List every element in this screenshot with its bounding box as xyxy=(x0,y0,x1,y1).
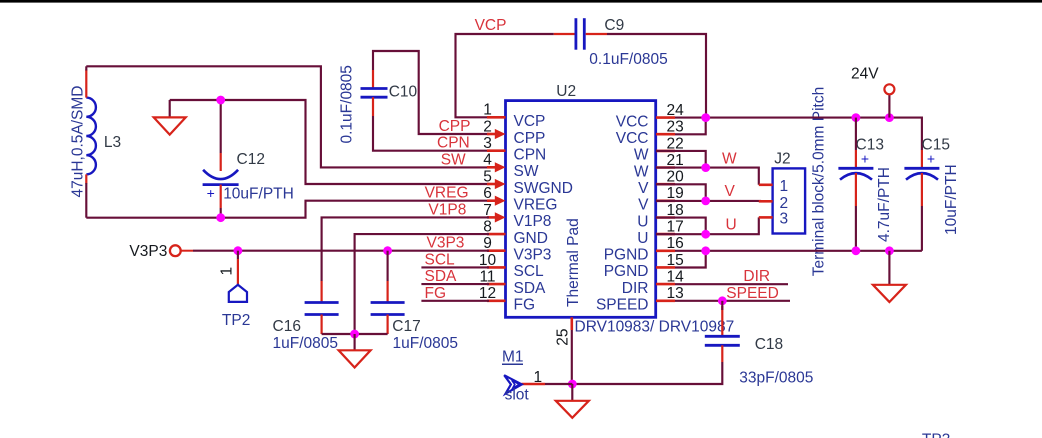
svg-text:DIR: DIR xyxy=(622,280,649,297)
svg-text:SCL: SCL xyxy=(514,263,545,280)
pin 21 (W) stub xyxy=(656,166,675,169)
pin 8 (GND) stub xyxy=(487,233,506,236)
wire net DIR : pin14 stub xyxy=(675,283,788,285)
svg-text:V3P3: V3P3 xyxy=(129,243,167,260)
wire net U : pin17 to J2 pin3 xyxy=(656,217,759,234)
svg-text:SWGND: SWGND xyxy=(514,180,573,197)
wire net VCC top : C9 right to VCC bus xyxy=(607,34,706,118)
svg-text:PGND: PGND xyxy=(604,247,649,264)
capacitor C10 xyxy=(361,70,388,116)
pin 14 (DIR) stub xyxy=(656,283,675,286)
svg-text:J2: J2 xyxy=(774,151,790,168)
svg-text:1: 1 xyxy=(780,178,789,195)
svg-text:V1P8: V1P8 xyxy=(428,201,466,218)
pin 13 (SPEED) stub xyxy=(656,299,675,302)
wire net V : pin19 to J2 pin2 xyxy=(656,184,760,201)
svg-text:slot: slot xyxy=(505,387,530,404)
svg-text:SPEED: SPEED xyxy=(596,297,649,314)
svg-text:VCP: VCP xyxy=(475,17,507,34)
wire C18 top lead xyxy=(721,301,723,310)
svg-text:V: V xyxy=(725,183,736,200)
connector J2 body xyxy=(773,168,806,233)
svg-text:11: 11 xyxy=(479,269,495,286)
svg-text:+: + xyxy=(207,185,215,201)
J2 pin 3 stub xyxy=(759,216,773,219)
junction PGND at ground xyxy=(885,246,894,255)
wire C12 top lead to SWGND node xyxy=(220,100,222,153)
wire net V3P3 : port to U2 pin9 xyxy=(180,250,193,252)
svg-text:V: V xyxy=(638,197,649,214)
svg-text:C13: C13 xyxy=(856,137,884,154)
svg-text:PGND: PGND xyxy=(604,263,649,280)
frame top border xyxy=(0,0,1042,3)
svg-text:10uF/PTH: 10uF/PTH xyxy=(943,164,960,235)
junction thermal pad / ground node xyxy=(568,380,577,389)
svg-text:C18: C18 xyxy=(755,336,783,353)
junction C12 top node xyxy=(216,96,225,105)
svg-text:SDA: SDA xyxy=(425,268,458,285)
wire net VREG : L3 bottom rail to U2 pin6 xyxy=(86,201,489,218)
svg-text:10uF/PTH: 10uF/PTH xyxy=(223,185,294,202)
pin 11 (SDA) stub xyxy=(487,283,506,286)
svg-text:C9: C9 xyxy=(604,17,624,34)
wire net GND : U2 pin8 to ground node xyxy=(355,234,489,334)
svg-text:10: 10 xyxy=(479,252,497,269)
svg-text:C16: C16 xyxy=(273,318,301,335)
mounting hole M1 (slot) xyxy=(504,375,545,393)
svg-text:Thermal Pad: Thermal Pad xyxy=(565,218,582,307)
svg-text:VREG: VREG xyxy=(425,185,469,202)
svg-text:C15: C15 xyxy=(922,137,950,154)
svg-text:0.1uF/0805: 0.1uF/0805 xyxy=(589,51,667,68)
svg-text:1: 1 xyxy=(219,267,236,276)
svg-text:GND: GND xyxy=(514,230,548,247)
svg-text:VCP: VCP xyxy=(514,113,546,130)
wire net VCC : pin24 bus to 24V and C13/C15 xyxy=(675,118,922,150)
pin 5 (SWGND) stub xyxy=(487,179,506,189)
svg-text:1uF/0805: 1uF/0805 xyxy=(393,335,459,352)
svg-text:25: 25 xyxy=(555,328,572,345)
pin 9 (V3P3) stub xyxy=(487,249,506,252)
capacitor C15 xyxy=(904,150,939,206)
ground symbol near C12 xyxy=(154,100,186,135)
svg-text:SPEED: SPEED xyxy=(726,285,779,302)
svg-text:TP3: TP3 xyxy=(922,432,950,438)
svg-text:15: 15 xyxy=(667,252,684,269)
junction SPEED at C18 xyxy=(718,296,727,305)
pin 7 (V1P8) stub xyxy=(487,212,506,222)
svg-text:21: 21 xyxy=(667,152,684,169)
svg-text:19: 19 xyxy=(667,185,684,202)
pin 24 (VCC) stub xyxy=(656,116,675,119)
svg-text:47uH,0.5A/SMD: 47uH,0.5A/SMD xyxy=(70,86,87,198)
svg-text:VCC: VCC xyxy=(616,130,649,147)
wire C13 top lead xyxy=(855,118,857,150)
capacitor C16 xyxy=(305,281,339,334)
J2 pin 2 stub xyxy=(759,200,773,203)
svg-text:22: 22 xyxy=(667,135,684,152)
svg-text:0.1uF/0805: 0.1uF/0805 xyxy=(339,65,356,143)
junction PGND at C13 xyxy=(852,246,861,255)
svg-text:FG: FG xyxy=(425,285,447,302)
wire net SPEED : pin13 to C18 xyxy=(675,300,790,302)
junction C12 bottom on VREG rail xyxy=(216,213,225,222)
svg-text:12: 12 xyxy=(479,285,496,302)
pin 2 (CPP) stub xyxy=(487,129,506,139)
svg-text:FG: FG xyxy=(514,297,536,314)
junction ground node C16/C17 xyxy=(350,330,359,339)
svg-text:V1P8: V1P8 xyxy=(514,213,552,230)
pin 18 (U) stub xyxy=(656,216,675,219)
wire net V1P8 : U2 pin7 to C16 xyxy=(322,217,489,281)
wire C13 bottom lead xyxy=(855,206,857,251)
svg-text:1: 1 xyxy=(483,102,492,119)
svg-text:1: 1 xyxy=(534,369,543,386)
svg-text:SW: SW xyxy=(514,163,539,180)
svg-text:U: U xyxy=(726,216,737,233)
wire net CPN : C10 bottom to U2 pin3 xyxy=(373,116,489,151)
svg-text:20: 20 xyxy=(667,169,685,186)
svg-text:DRV10983/ DRV10987: DRV10983/ DRV10987 xyxy=(575,319,735,336)
wire C15 bottom lead xyxy=(921,206,923,251)
pin 19 (V) stub xyxy=(656,200,675,203)
port circle V3P3 xyxy=(170,245,181,256)
junction V at pin19 xyxy=(701,197,710,206)
wire net W : pin21 to J2 pin1 xyxy=(656,151,759,185)
junction U at pin17 xyxy=(701,230,710,239)
pin 25 (thermal pad) stub xyxy=(570,317,573,384)
svg-text:V: V xyxy=(638,180,649,197)
pin 22 (W) stub xyxy=(656,150,675,153)
svg-text:9: 9 xyxy=(483,235,492,252)
wire L3 top lead xyxy=(85,66,87,70)
svg-text:CPP: CPP xyxy=(514,130,546,147)
svg-text:24V: 24V xyxy=(851,66,879,83)
svg-text:4: 4 xyxy=(483,152,492,169)
svg-text:C17: C17 xyxy=(392,318,420,335)
svg-text:16: 16 xyxy=(667,235,684,252)
svg-text:U: U xyxy=(637,213,648,230)
svg-text:V3P3: V3P3 xyxy=(427,235,465,252)
svg-text:SDA: SDA xyxy=(514,280,547,297)
capacitor C12 xyxy=(203,153,239,208)
wire net PGND : pin16 bus to C13/C15 bottoms xyxy=(675,250,922,252)
junction W at pin21 xyxy=(701,163,710,172)
svg-text:14: 14 xyxy=(667,269,685,286)
pin 15 (PGND) stub xyxy=(656,266,675,269)
ground symbol below C16/C17 xyxy=(339,334,371,368)
wire net SWGND : ground/C12 to U2 pin5 xyxy=(170,100,489,184)
pin 23 (VCC) stub xyxy=(656,133,675,136)
svg-text:C12: C12 xyxy=(237,151,265,168)
svg-text:3: 3 xyxy=(780,211,789,228)
svg-text:18: 18 xyxy=(667,202,684,219)
pin 4 (SW) stub xyxy=(487,162,506,172)
capacitor C17 xyxy=(371,251,405,334)
svg-text:7: 7 xyxy=(483,202,492,219)
svg-text:Terminal block/5.0mm Pitch: Terminal block/5.0mm Pitch xyxy=(811,87,828,277)
svg-text:C10: C10 xyxy=(389,84,418,101)
op-amp/driver U2 body xyxy=(506,101,656,318)
wire pin23 link to VCC bus xyxy=(675,118,706,135)
wire net FG : stub at U2 pin12 xyxy=(421,300,489,302)
svg-text:M1: M1 xyxy=(502,349,524,366)
svg-text:VCC: VCC xyxy=(616,113,649,130)
pin 12 (FG) stub xyxy=(487,299,506,302)
wire ground bus C16/C17 xyxy=(322,333,388,335)
pin 10 (SCL) stub xyxy=(487,266,506,269)
junction VCC at pin24 xyxy=(701,113,710,122)
svg-text:8: 8 xyxy=(483,219,492,236)
wire net SW : L3 top to U2 pin4 xyxy=(86,66,489,167)
svg-text:33pF/0805: 33pF/0805 xyxy=(739,370,813,387)
svg-text:CPP: CPP xyxy=(439,118,471,135)
svg-text:SCL: SCL xyxy=(425,251,456,268)
svg-text:CPN: CPN xyxy=(437,135,470,152)
junction VCC at 24V xyxy=(885,113,894,122)
svg-text:V3P3: V3P3 xyxy=(514,247,552,264)
svg-text:L3: L3 xyxy=(104,134,121,151)
svg-text:5: 5 xyxy=(483,168,492,185)
ground symbol below C13/C15 xyxy=(873,251,906,302)
capacitor C18 xyxy=(705,306,740,362)
svg-text:17: 17 xyxy=(667,219,684,236)
pin 6 (VREG) stub xyxy=(487,196,506,206)
wire net VCP : U2 pin1 to C9 left xyxy=(456,34,554,117)
pin 20 (V) stub xyxy=(656,183,675,186)
wire net CPP : C10 top to U2 pin2 xyxy=(373,51,489,134)
svg-text:W: W xyxy=(722,151,737,168)
svg-text:U: U xyxy=(637,230,648,247)
wire C12 bottom lead xyxy=(220,208,222,218)
test point TP2 xyxy=(229,251,247,302)
junction VCC at C13 xyxy=(852,113,861,122)
svg-text:U2: U2 xyxy=(556,83,576,100)
junction PGND at pin16 xyxy=(701,246,710,255)
wire pin15 link to PGND bus xyxy=(675,251,706,268)
svg-text:4.7uF/PTH: 4.7uF/PTH xyxy=(876,167,893,242)
svg-text:VREG: VREG xyxy=(514,197,558,214)
power port 24V xyxy=(884,84,894,117)
capacitor C9 xyxy=(554,18,607,50)
wire net SCL : stub at U2 pin10 xyxy=(421,266,489,268)
svg-text:23: 23 xyxy=(667,119,684,136)
svg-text:2: 2 xyxy=(780,195,789,212)
svg-text:SW: SW xyxy=(441,151,466,168)
wire C18 bottom lead to thermal pad node xyxy=(572,362,722,384)
pin 16 (PGND) stub xyxy=(656,250,675,253)
svg-text:13: 13 xyxy=(667,285,684,302)
svg-text:3: 3 xyxy=(483,135,492,152)
capacitor C13 xyxy=(838,150,873,206)
svg-text:2: 2 xyxy=(483,118,492,135)
svg-text:24: 24 xyxy=(667,102,685,119)
pin 17 (U) stub xyxy=(656,233,675,236)
svg-text:TP2: TP2 xyxy=(222,312,250,329)
wire M1 to thermal pad node xyxy=(545,383,572,385)
svg-text:CPN: CPN xyxy=(514,147,547,164)
J2 pin 1 stub xyxy=(759,184,773,187)
junction V3P3/TP2 xyxy=(234,246,243,255)
junction V3P3/C17 xyxy=(383,246,392,255)
svg-text:6: 6 xyxy=(483,185,492,202)
svg-text:DIR: DIR xyxy=(743,268,770,285)
wire L3 bottom lead xyxy=(85,183,87,218)
pin 3 (CPN) stub xyxy=(487,149,506,152)
M1 refdes label xyxy=(502,349,524,366)
svg-text:1uF/0805: 1uF/0805 xyxy=(273,335,339,352)
pin 1 (VCP) stub xyxy=(487,116,506,119)
wire net SDA : stub at U2 pin11 xyxy=(421,283,489,285)
svg-text:W: W xyxy=(634,163,649,180)
ground symbol below thermal pad xyxy=(556,384,589,418)
svg-text:W: W xyxy=(634,147,649,164)
inductor L3 xyxy=(86,70,96,184)
